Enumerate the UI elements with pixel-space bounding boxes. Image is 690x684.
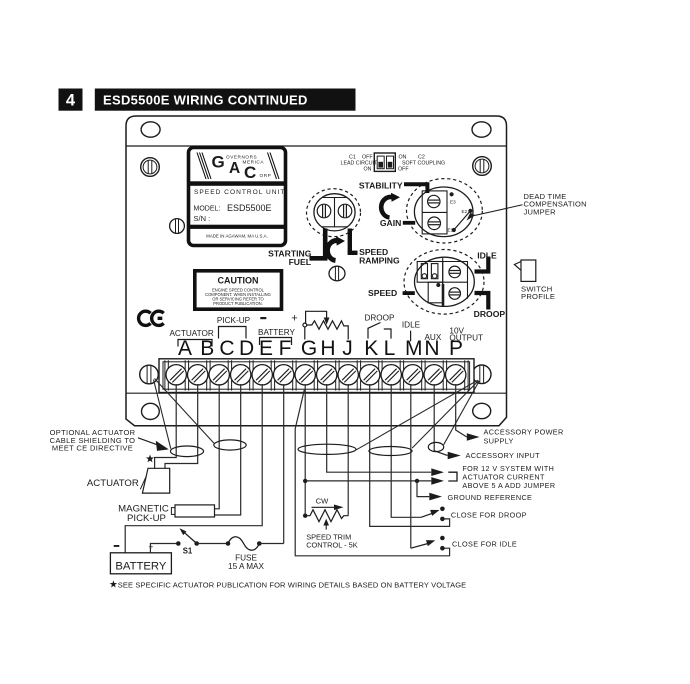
- wire terminal F to fuse: [283, 384, 285, 544]
- svg-text:E: E: [259, 337, 273, 360]
- pot inner lines: [322, 197, 347, 199]
- close for droop switch: [440, 507, 445, 512]
- wire terminal C to pickup: [215, 384, 220, 509]
- svg-text:OFF: OFF: [362, 154, 373, 160]
- svg-text:ON: ON: [364, 167, 372, 173]
- svg-text:JUMPER: JUMPER: [524, 207, 557, 216]
- gain pot inner frame: [422, 191, 447, 234]
- svg-text:PICK-UP: PICK-UP: [217, 316, 251, 325]
- wire terminal G branch to idle switch (via left drop): [295, 389, 449, 556]
- svg-text:ESD5500E WIRING CONTINUED: ESD5500E WIRING CONTINUED: [103, 93, 308, 108]
- terminal separators: [165, 360, 468, 390]
- label divider bar 1: [189, 181, 285, 186]
- terminal screws A-P: [166, 365, 466, 385]
- svg-text:OFF: OFF: [398, 167, 409, 173]
- jumper wire E1 to E2: [454, 211, 471, 230]
- svg-text:F: F: [279, 337, 292, 360]
- svg-text:BATTERY: BATTERY: [115, 561, 167, 573]
- speed pot inner frame: [417, 258, 467, 303]
- svg-text:ACCESSORY INPUT: ACCESSORY INPUT: [466, 451, 541, 460]
- gain curved arrow: [381, 197, 392, 218]
- svg-text:RAMPING: RAMPING: [359, 256, 400, 266]
- screw top-right: [473, 157, 492, 176]
- optional actuator shielding note: [50, 428, 136, 453]
- starting fuel pot body: [314, 194, 355, 231]
- DROOP lead (thick): [475, 293, 489, 310]
- svg-text:CW: CW: [316, 496, 329, 505]
- wire S1 to fuse: [197, 543, 228, 545]
- jumper pin E1: [452, 228, 456, 232]
- svg-text:CLOSE FOR DROOP: CLOSE FOR DROOP: [451, 510, 527, 519]
- svg-text:ACCESSORY POWER: ACCESSORY POWER: [484, 428, 564, 437]
- screw top-left: [141, 158, 160, 177]
- jumper pin E3: [450, 192, 454, 196]
- star by actuator wire: [146, 455, 154, 463]
- svg-text:B: B: [200, 337, 214, 360]
- minus sign above E: [260, 317, 266, 319]
- actuator symbol: [142, 468, 169, 493]
- GAC nameplate label box: [189, 148, 286, 246]
- switch profile icon: [514, 260, 535, 281]
- board outline: [126, 116, 507, 426]
- magnetic pickup symbol: [175, 505, 215, 517]
- speed pot switch cell 1: [421, 264, 427, 279]
- speed pot center pin: [436, 283, 440, 287]
- wire terminal E to battery minus: [125, 384, 262, 553]
- svg-text:MADE IN AGAWAM, MA U.S.A.: MADE IN AGAWAM, MA U.S.A.: [206, 234, 268, 239]
- battery minus sign: [114, 545, 120, 547]
- header number box 4: [59, 89, 83, 111]
- stability/gain pot dashed ring: [407, 179, 483, 243]
- svg-text:SPEED: SPEED: [368, 288, 397, 298]
- svg-text:ON: ON: [399, 154, 407, 160]
- DIP switch block: [374, 153, 395, 171]
- svg-text:MERICA: MERICA: [243, 159, 265, 164]
- wire fuse to F: [259, 543, 283, 545]
- leader to dead time label: [470, 205, 523, 217]
- svg-text:FOR 12 V SYSTEM WITH: FOR 12 V SYSTEM WITH: [462, 464, 554, 473]
- shield drain wires from right mount screw: [356, 380, 478, 450]
- actuator pointer: [140, 476, 146, 489]
- svg-text:P: P: [449, 337, 463, 360]
- svg-text:SUPPLY: SUPPLY: [484, 437, 514, 446]
- cable shield ellipse 5 (accessory input): [428, 442, 443, 451]
- svg-text:LEAD CIRCUIT: LEAD CIRCUIT: [341, 161, 379, 167]
- cable shield ellipse 2 (pickup): [214, 440, 246, 450]
- svg-text:C: C: [244, 163, 256, 182]
- logo hatch left: [197, 153, 211, 180]
- svg-text:A: A: [229, 160, 240, 177]
- svg-text:E1: E1: [448, 228, 454, 233]
- gain pot screw lower: [428, 217, 441, 230]
- note arrow: [138, 438, 162, 447]
- starting fuel leads: [323, 229, 328, 259]
- svg-text:DROOP: DROOP: [474, 309, 506, 319]
- svg-text:ACTUATOR CURRENT: ACTUATOR CURRENT: [462, 473, 545, 482]
- speed trim control: [303, 479, 307, 483]
- stability/gain pot body: [414, 187, 473, 237]
- svg-text:CLOSE FOR IDLE: CLOSE FOR IDLE: [452, 539, 517, 548]
- IDLE lead (thick): [475, 257, 489, 272]
- speed pot switch cell 2: [431, 264, 438, 279]
- svg-text:SPEED CONTROL UNIT: SPEED CONTROL UNIT: [194, 189, 285, 196]
- hole bottom-right: [473, 403, 491, 418]
- header title bar: [95, 89, 356, 111]
- svg-text:ABOVE 5 A ADD JUMPER: ABOVE 5 A ADD JUMPER: [462, 481, 555, 490]
- svg-text:N: N: [424, 337, 439, 360]
- svg-text:STABILITY: STABILITY: [359, 180, 403, 190]
- footnote: [110, 580, 117, 587]
- wire terminal M to idle switch blade: [410, 384, 412, 548]
- wire terminal L to droop switch blade: [391, 384, 421, 517]
- svg-text:D: D: [239, 337, 254, 360]
- svg-text:15 A MAX: 15 A MAX: [228, 562, 264, 571]
- cable shield ellipse 1 (actuator): [170, 446, 203, 457]
- svg-text:E3: E3: [450, 200, 456, 205]
- svg-text:J: J: [342, 337, 353, 360]
- fuel pot screw left: [317, 204, 331, 218]
- 12V jumper arrows and bracket: [431, 468, 444, 476]
- close for idle switch: [440, 536, 445, 541]
- svg-text:C: C: [219, 337, 234, 360]
- wire terminal N to accessory input: [434, 384, 447, 456]
- svg-text:M: M: [405, 337, 423, 360]
- wire terminal D to pickup: [215, 384, 241, 515]
- battery box: [110, 553, 171, 574]
- svg-text:FUEL: FUEL: [289, 257, 311, 267]
- ground reference branch: [415, 479, 419, 483]
- svg-text:G: G: [212, 153, 225, 172]
- wire terminal A to actuator: [155, 384, 177, 468]
- mount screw right of terminal strip: [472, 365, 491, 384]
- dead time compensation jumper label: [524, 192, 587, 216]
- svg-text:S/N :: S/N :: [194, 214, 211, 223]
- svg-text:PICK-UP: PICK-UP: [127, 513, 166, 524]
- svg-text:IDLE: IDLE: [402, 320, 421, 329]
- cable shield ellipse 3 (speed trim): [298, 444, 356, 454]
- terminal strip body: [159, 359, 474, 393]
- gain pot screw upper: [428, 195, 440, 207]
- jumper pin E2: [468, 209, 472, 213]
- wire terminal G down to trim pot and jumper rail: [304, 384, 306, 516]
- svg-text:S1: S1: [183, 546, 193, 555]
- svg-text:BATTERY: BATTERY: [258, 328, 296, 337]
- DIP labels: [341, 154, 446, 172]
- shield drain wires from left mount screw: [154, 380, 171, 449]
- CE mark: [139, 311, 164, 325]
- wire terminal K to droop switch contact: [370, 384, 450, 526]
- svg-text:K: K: [364, 337, 378, 360]
- hole bottom-left: [142, 403, 160, 419]
- mount screw left of terminal strip: [140, 365, 159, 384]
- speed pot screw upper: [449, 266, 461, 278]
- accessory input arrow: [448, 452, 461, 460]
- speed trim pot symbol above G-H-J: [303, 311, 348, 339]
- svg-text:PROFILE: PROFILE: [521, 292, 555, 301]
- svg-text:CAUTION: CAUTION: [218, 275, 259, 285]
- starting fuel curved arrow: [327, 241, 337, 261]
- svg-text:ACTUATOR: ACTUATOR: [87, 478, 139, 489]
- svg-text:ESD5500E: ESD5500E: [227, 203, 272, 213]
- speed pot body: [415, 257, 475, 306]
- starting fuel pot dashed ring: [307, 189, 361, 237]
- wire terminal H to jumper upper arrow: [327, 384, 432, 472]
- svg-text:G: G: [301, 337, 317, 360]
- svg-text:GAIN: GAIN: [380, 218, 401, 228]
- screw center (below starting fuel pot): [329, 266, 345, 281]
- terminal letters A-P: [178, 337, 463, 360]
- svg-text:SEE SPECIFIC ACTUATOR PUBLICAT: SEE SPECIFIC ACTUATOR PUBLICATION FOR WI…: [118, 581, 466, 590]
- svg-text:4: 4: [66, 92, 76, 110]
- switch S1: [176, 541, 181, 546]
- speed/idle/droop pot dashed ring: [404, 249, 484, 314]
- speed pot screw lower: [449, 288, 461, 300]
- svg-text:PRODUCT PUBLICATION.: PRODUCT PUBLICATION.: [213, 301, 262, 306]
- svg-text:C1: C1: [349, 154, 356, 160]
- svg-text:GROUND REFERENCE: GROUND REFERENCE: [448, 493, 533, 502]
- svg-text:+: +: [291, 312, 297, 324]
- svg-text:MEET CE DIRECTIVE: MEET CE DIRECTIVE: [52, 444, 133, 453]
- label divider bar 2: [189, 225, 285, 229]
- cable shield ellipse 4: [369, 447, 412, 456]
- logo hatch right: [268, 153, 280, 180]
- svg-text:L: L: [384, 337, 396, 360]
- fuel pot screw right: [338, 204, 352, 218]
- svg-text:C2: C2: [418, 154, 425, 160]
- CAUTION box: [195, 271, 282, 309]
- wire terminal B to actuator: [165, 384, 198, 468]
- wire terminal P to accessory power supply: [456, 384, 467, 437]
- board inner bottom line: [126, 392, 507, 394]
- fuse: [226, 541, 231, 546]
- hole top-left: [141, 122, 160, 137]
- svg-text:CONTROL - 5K: CONTROL - 5K: [306, 541, 358, 550]
- hole top-right: [472, 122, 491, 137]
- svg-text:ORP: ORP: [260, 173, 272, 178]
- svg-text:A: A: [178, 337, 192, 360]
- accessory power supply arrow: [467, 433, 480, 441]
- svg-text:E2: E2: [462, 209, 468, 214]
- svg-text:H: H: [320, 337, 335, 360]
- svg-text:MODEL:: MODEL:: [194, 206, 221, 213]
- svg-text:DROOP: DROOP: [364, 314, 395, 323]
- board inner top line: [126, 145, 507, 147]
- screw left mid (below label): [170, 219, 185, 234]
- svg-text:IDLE: IDLE: [477, 250, 497, 260]
- wire battery plus to S1: [150, 544, 178, 553]
- wire terminal J to trim pot right: [347, 384, 349, 516]
